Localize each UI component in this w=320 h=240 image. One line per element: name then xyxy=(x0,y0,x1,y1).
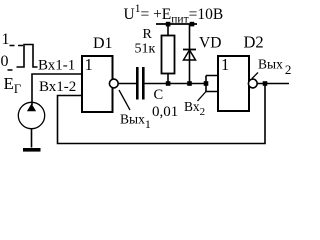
svg-text:D1: D1 xyxy=(93,35,113,52)
svg-text:Вх1-1: Вх1-1 xyxy=(38,58,75,74)
svg-text:51к: 51к xyxy=(135,42,156,57)
svg-text:D2: D2 xyxy=(244,33,264,52)
svg-text:Вх1-2: Вх1-2 xyxy=(39,79,76,95)
svg-text:R: R xyxy=(143,27,153,42)
svg-text:1: 1 xyxy=(2,31,10,48)
svg-text:1: 1 xyxy=(85,55,93,74)
svg-text:VD: VD xyxy=(199,35,221,52)
svg-text:1: 1 xyxy=(221,55,229,74)
svg-text:С: С xyxy=(154,87,164,103)
svg-text:0: 0 xyxy=(1,53,9,70)
svg-text:0,01: 0,01 xyxy=(152,104,178,120)
